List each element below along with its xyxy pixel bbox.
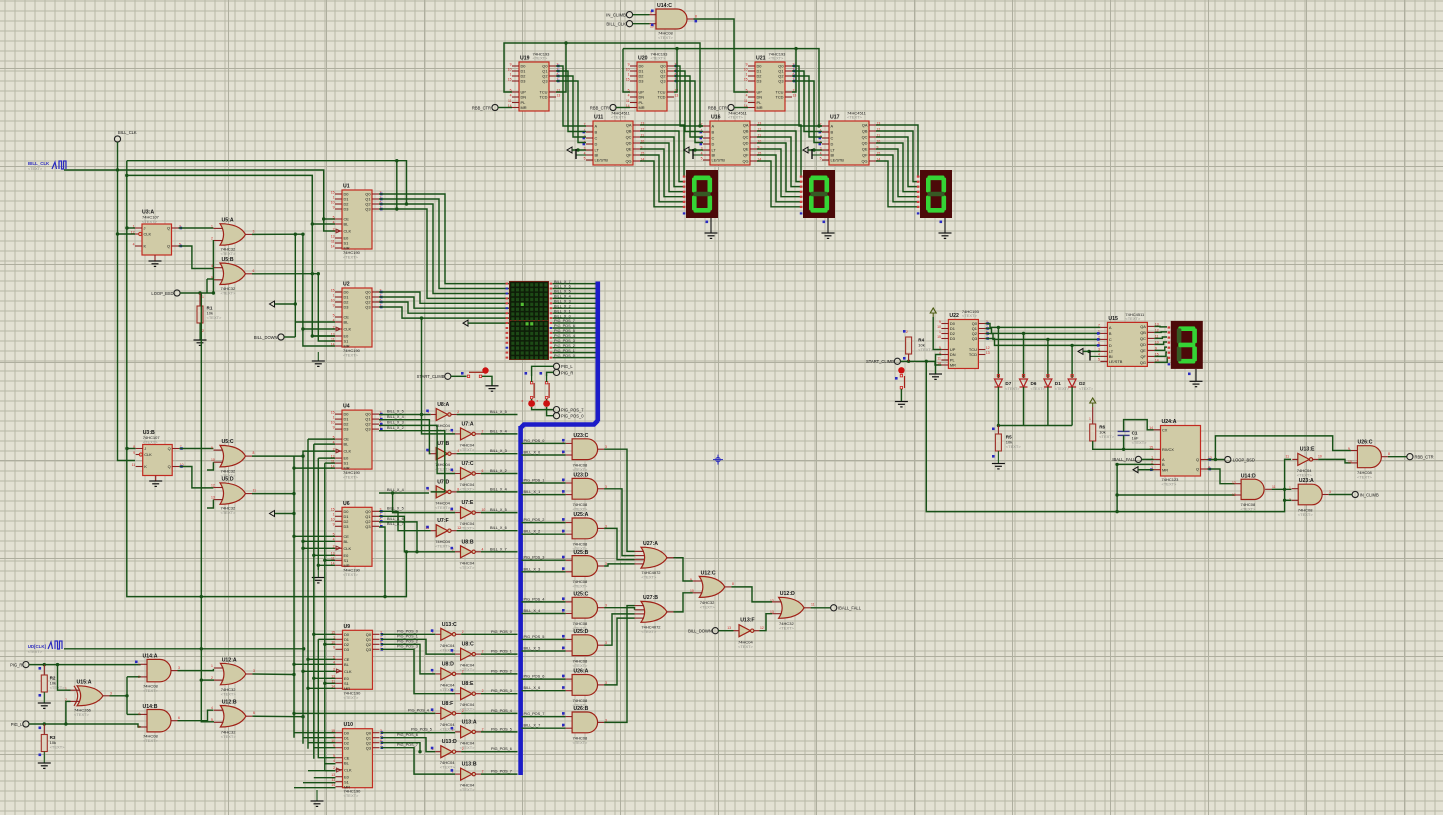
svg-text:U26:A: U26:A [573,669,588,675]
svg-text:BILL_X_6: BILL_X_6 [554,285,571,289]
U2 CLK arrow [336,327,341,331]
stubs into U6 [294,535,335,537]
wires U26:A inputs from bus [522,678,566,680]
svg-text:13: 13 [986,351,990,355]
svg-text:2: 2 [462,669,464,673]
wire loop H1 to U1 Q side [127,161,407,204]
svg-text:TCD: TCD [658,95,666,100]
svg-text:U8:A: U8:A [437,402,449,408]
counter U1 74HC190 [342,190,372,249]
svg-text:BILL_X_0: BILL_X_0 [524,451,541,455]
svg-text:<TEXT>: <TEXT> [50,745,66,750]
svg-text:QC: QC [626,135,632,140]
wire [633,14,650,16]
svg-text:C: C [595,136,598,141]
svg-text:D3: D3 [344,305,349,310]
svg-text:8: 8 [253,451,255,455]
svg-text:PIG_POS_4: PIG_POS_4 [554,334,575,338]
svg-text:CLK: CLK [344,327,352,332]
svg-text:RBB_CTR: RBB_CTR [1415,455,1434,460]
svg-text:U4: U4 [343,404,350,410]
wire U7:B output to bus [457,453,518,455]
svg-text:<TEXT>: <TEXT> [221,692,237,697]
svg-text:15: 15 [937,335,941,339]
wire PIG_R into U14:A in1 done above; wire U14:A out to U12:A [178,669,214,671]
counter U6 74HC190 [342,507,372,566]
svg-text:BILL_X_1: BILL_X_1 [554,309,571,313]
capacitor C1 [1118,431,1130,435]
svg-text:<TEXT>: <TEXT> [28,650,43,654]
wire U12:A in2 from long vertical [201,679,214,681]
wire diode common rail [998,425,1072,427]
wire U23:A out to IN_CLIMB terminal [1329,494,1352,496]
svg-text:U13:F: U13:F [740,618,754,624]
svg-text:U5:B: U5:B [222,257,234,263]
display ground [944,218,946,233]
wire top loop A (U19.TCU over to U16 column) [556,43,703,126]
svg-text:9: 9 [746,62,748,66]
diode D6 [1023,333,1025,378]
svg-text:IBALL_FALL: IBALL_FALL [838,606,862,611]
svg-text:BILL_X_7: BILL_X_7 [524,724,541,728]
svg-text:C: C [1109,337,1112,342]
svg-text:10: 10 [331,298,335,302]
svg-text:BILL_X_4: BILL_X_4 [524,609,541,613]
wire U5:A in2 from LOOP node [212,240,214,293]
svg-text:D3: D3 [344,647,349,652]
svg-text:MR: MR [521,105,527,110]
svg-text:7: 7 [1098,324,1100,328]
svg-text:B: B [595,130,598,135]
svg-text:<TEXT>: <TEXT> [700,604,716,609]
svg-text:D3: D3 [344,524,349,529]
svg-text:1: 1 [333,195,335,199]
svg-text:MR: MR [344,563,350,568]
ground (BI pin) [812,154,822,156]
resistor R5 [997,426,999,435]
svg-text:U5:C: U5:C [222,439,234,445]
wire loop H3 [127,175,335,336]
svg-text:K: K [144,244,147,249]
svg-text:PIG_POS_5: PIG_POS_5 [554,329,575,333]
svg-text:QC: QC [1140,336,1146,341]
wire U20.TCU riser [674,49,677,92]
svg-text:2: 2 [482,689,484,693]
svg-text:15: 15 [1149,446,1153,450]
svg-text:UD[CLK]: UD[CLK] [28,644,47,649]
svg-text:<TEXT>: <TEXT> [573,663,589,668]
terminal LOOP_BSD (right) [1225,456,1231,462]
svg-text:13: 13 [727,626,731,630]
wire U5:B in2 drop [207,278,213,280]
svg-text:BILL_CLK: BILL_CLK [118,130,137,135]
svg-text:12: 12 [1232,481,1236,485]
U15 LT arrow [1078,348,1083,354]
terminal IN_CLIMB [626,12,632,18]
wire U13:D output to bus [461,751,517,753]
svg-text:<TEXT>: <TEXT> [847,115,863,120]
svg-text:B: B [712,130,715,135]
svg-text:IN_CLIMB: IN_CLIMB [606,13,626,18]
svg-text:IBALL_FALL: IBALL_FALL [1112,457,1136,462]
svg-text:2: 2 [482,770,484,774]
svg-text:DN: DN [950,352,956,357]
svg-text:11: 11 [132,463,136,467]
ground under U10 [316,790,318,801]
svg-text:<TEXT>: <TEXT> [142,219,158,224]
svg-text:<TEXT>: <TEXT> [74,712,90,717]
svg-text:<TEXT>: <TEXT> [533,56,549,61]
svg-text:2: 2 [462,630,464,634]
counter U2 74HC190 [342,288,372,347]
svg-text:1: 1 [333,293,335,297]
svg-text:4: 4 [133,242,135,246]
svg-text:PIG_L: PIG_L [561,364,573,369]
svg-text:U13:D: U13:D [442,739,457,745]
svg-text:PIG_POS_5: PIG_POS_5 [491,727,512,731]
wire U7:C output to bus [481,473,518,475]
svg-text:BILL_X_6: BILL_X_6 [524,686,541,690]
svg-text:10: 10 [1318,455,1322,459]
svg-text:PIG_POS_5: PIG_POS_5 [411,727,432,731]
svg-text:PIG_POS_7: PIG_POS_7 [554,319,575,323]
svg-text:U7:B: U7:B [437,441,449,447]
wire U15:A in1 from PIG_R [58,665,71,691]
wire V295 (U5:A node down to U2/BILL_DOWN) [294,234,296,337]
ground (BI pin) [693,154,703,156]
wire U4.Q0 row to U8:A and U7:A [379,414,431,416]
svg-text:U13:A: U13:A [462,719,477,725]
U3:A clock bubble [139,232,142,235]
wire U5:D in2 [207,500,213,508]
svg-text:U23:A: U23:A [1299,478,1314,484]
svg-text:U8:E: U8:E [462,681,474,687]
svg-text:3: 3 [1329,490,1331,494]
wire [616,107,630,109]
svg-text:U14:D: U14:D [1241,473,1256,479]
svg-text:U24:A: U24:A [1162,419,1177,425]
wire V312.3 (to U1/U2) [311,175,313,336]
svg-text:A: A [831,124,834,129]
long vertical x=201 (LOOP_BSD node) [200,293,202,680]
wire BILL_DOWN to U13:F [718,630,733,632]
svg-text:<TEXT>: <TEXT> [143,688,159,693]
svg-text:<TEXT>: <TEXT> [221,510,237,515]
svg-text:9: 9 [628,62,630,66]
wire U22.DN to ground [936,355,942,375]
svg-text:14: 14 [1149,426,1153,430]
svg-text:Q: Q [167,226,170,231]
svg-text:<TEXT>: <TEXT> [573,740,589,745]
wire long vertical to bottom-right AND gates [926,361,1291,511]
diode D1 [1047,339,1049,378]
svg-text:9: 9 [1348,447,1350,451]
svg-text:BILL_X_2: BILL_X_2 [387,426,404,430]
svg-text:1: 1 [138,662,140,666]
svg-text:Q3: Q3 [778,79,783,84]
svg-text:B: B [831,130,834,135]
svg-text:B: B [1109,331,1112,336]
svg-text:Q3: Q3 [365,427,370,432]
svg-text:6: 6 [253,711,255,715]
svg-text:10: 10 [331,420,335,424]
svg-text:9: 9 [939,320,941,324]
svg-text:<TEXT>: <TEXT> [779,625,795,630]
svg-text:QA: QA [1140,324,1146,329]
svg-text:DN: DN [639,95,645,100]
wires counter to decoder staircases [556,66,586,126]
svg-text:3: 3 [110,692,112,696]
svg-text:5: 5 [584,156,586,160]
svg-text:<TEXT>: <TEXT> [1298,512,1314,517]
wire U3:A CLK input [118,233,136,235]
svg-text:12: 12 [211,484,215,488]
svg-text:BILL_X_5: BILL_X_5 [554,290,571,294]
svg-text:13: 13 [1232,493,1236,497]
svg-text:RBB_CTR: RBB_CTR [708,105,727,110]
svg-text:PIG_POS_6: PIG_POS_6 [554,324,575,328]
svg-text:BILL_X_3: BILL_X_3 [387,421,404,425]
svg-text:U1: U1 [343,184,350,190]
svg-text:U16: U16 [711,115,721,121]
svg-text:11: 11 [1285,455,1289,459]
svg-text:U12:D: U12:D [780,591,795,597]
wire START_CLIMB row [901,361,942,365]
decoder U15 74HC4511 [1107,322,1147,366]
svg-text:BILL_X_0: BILL_X_0 [554,314,571,318]
svg-text:QG: QG [1140,360,1146,365]
svg-text:MR: MR [344,344,350,349]
svg-text:2: 2 [211,237,213,241]
svg-text:RBB_CTR: RBB_CTR [590,105,609,110]
LT arrow terminal [684,147,689,153]
svg-text:U17: U17 [830,115,840,121]
svg-text:3: 3 [253,230,255,234]
svg-text:9: 9 [211,446,213,450]
U3:A reset pin to ground [154,255,156,261]
terminal RBB_CTR (U20 MR) [610,104,616,110]
svg-text:Q3: Q3 [365,305,370,310]
wire U13:F out to U12:D in2 [759,614,772,631]
svg-text:PIG_POS_2: PIG_POS_2 [524,518,545,522]
svg-text:<TEXT>: <TEXT> [1005,387,1020,391]
svg-text:12: 12 [986,346,990,350]
ground under R5 [997,451,999,464]
svg-text:<TEXT>: <TEXT> [728,115,744,120]
svg-text:U5:A: U5:A [222,218,234,224]
svg-text:<TEXT>: <TEXT> [435,505,451,510]
svg-text:QE: QE [626,147,632,152]
svg-text:MR: MR [344,686,350,691]
svg-text:<TEXT>: <TEXT> [641,629,657,634]
svg-text:<TEXT>: <TEXT> [221,291,237,296]
ground (BI pin) [576,154,586,156]
svg-text:U13:B: U13:B [462,762,477,768]
svg-text:10: 10 [482,508,486,512]
svg-text:QG: QG [861,159,867,164]
svg-text:13: 13 [211,496,215,500]
wire U7:F output to bus [457,530,518,532]
U1 CLK arrow [336,229,341,233]
wires U25:C inputs from bus [522,601,566,603]
svg-text:U12:B: U12:B [222,700,237,706]
arrow terminal to dot matrix row 8 [463,320,468,326]
svg-text:LOOP_BSD: LOOP_BSD [151,291,173,296]
svg-text:U25:A: U25:A [573,512,588,518]
svg-text:PIG_POS_0: PIG_POS_0 [554,354,575,358]
svg-text:10: 10 [508,67,512,71]
svg-text:MR: MR [344,466,350,471]
svg-text:BL: BL [344,320,350,325]
svg-text:BILL_X_5: BILL_X_5 [387,410,404,414]
counter U4 74HC190 [342,410,372,469]
svg-text:<TEXT>: <TEXT> [460,447,476,452]
svg-text:15: 15 [331,508,335,512]
wire U8:A output to bus [457,414,518,416]
wires U25:A inputs from bus [522,522,566,524]
U4 CLK arrow [336,449,341,453]
wire U27:B out to U12:C in2 [674,593,693,612]
wire U13:B output to bus [481,773,518,775]
svg-text:BILL_CLK: BILL_CLK [606,22,626,27]
svg-text:<TEXT>: <TEXT> [573,467,589,472]
svg-text:<TEXT>: <TEXT> [143,440,159,445]
svg-text:U10: U10 [344,722,354,728]
svg-text:6: 6 [482,469,484,473]
svg-text:MR: MR [950,363,956,368]
bus vertical lower [518,426,523,775]
svg-text:TCD: TCD [969,352,977,357]
wire V1 lower (to U3:B clock) [118,170,136,461]
wire V2 long left vertical [127,161,407,597]
svg-text:D2: D2 [1079,381,1085,386]
decoder U17 74HC4511 [829,121,869,165]
7-seg display 1 (digit 0) [686,170,718,218]
svg-text:4: 4 [510,93,512,97]
svg-text:Q3: Q3 [542,79,547,84]
svg-text:4: 4 [482,547,484,551]
counter U9 74HC190 [343,630,373,689]
svg-text:<TEXT>: <TEXT> [1132,440,1148,445]
svg-text:4: 4 [746,93,748,97]
svg-text:5: 5 [138,725,140,729]
svg-text:U14:C: U14:C [657,3,672,9]
wire vcc to U22.UP [933,317,941,350]
svg-text:BILL_X_6: BILL_X_6 [490,526,507,530]
svg-text:U13:E: U13:E [1300,447,1315,453]
svg-text:15: 15 [331,288,335,292]
wire U3:A J input [127,227,135,229]
wires AND outputs to U27:A [604,449,634,551]
svg-text:9: 9 [333,303,335,307]
wire [572,149,586,151]
wire U12:A out to counter columns [252,673,294,676]
svg-text:2: 2 [457,410,459,414]
svg-text:U5:D: U5:D [222,477,234,483]
svg-text:D3: D3 [757,79,762,84]
svg-text:PIG_POS_2: PIG_POS_2 [491,669,512,673]
svg-text:BILL_DOWN: BILL_DOWN [688,629,712,634]
svg-text:5: 5 [1098,358,1100,362]
svg-text:U23:D: U23:D [573,473,588,479]
svg-text:PIG_POS_1: PIG_POS_1 [491,650,512,654]
svg-text:D3: D3 [950,336,955,341]
svg-text:<TEXT>: <TEXT> [460,787,476,792]
svg-text:x: x [522,399,524,403]
svg-text:QE: QE [862,147,868,152]
svg-text:D: D [831,142,834,147]
wire top loop B (U20 over to U17 column) [623,49,822,126]
svg-text:x: x [537,399,539,403]
wire U5:A out to counter column [252,233,303,235]
svg-text:PIG_POS_3: PIG_POS_3 [554,339,575,343]
svg-text:U6: U6 [343,501,350,507]
terminal LOOP_BSD (left) [174,290,180,296]
wire LOOP_BSD [180,292,213,294]
svg-text:MR: MR [344,246,350,251]
svg-text:<TEXT>: <TEXT> [651,56,667,61]
svg-text:U21: U21 [756,56,766,62]
svg-text:CLK: CLK [344,546,352,551]
diode D7 [997,327,999,378]
svg-text:TCD: TCD [540,95,548,100]
svg-text:U14:A: U14:A [143,654,158,660]
svg-text:D3: D3 [521,79,526,84]
vertical feed columns for U4/U6/U9/U10 [293,456,295,738]
svg-text:2: 2 [333,227,335,231]
svg-text:<TEXT>: <TEXT> [343,572,359,577]
counter U10 74HC190 [343,729,373,788]
svg-text:Q: Q [168,446,171,451]
svg-text:BL: BL [344,222,350,227]
wires U10 Q to inverters [381,732,456,734]
wire U5:C output to column [252,451,335,456]
svg-text:U27:B: U27:B [643,595,658,601]
svg-text:1: 1 [202,295,204,299]
svg-text:9: 9 [510,62,512,66]
wire U12:B in2 from long vertical branch [201,680,214,722]
svg-text:U7:A: U7:A [462,421,474,427]
svg-text:U26:B: U26:B [573,706,588,712]
svg-text:PIG_R: PIG_R [10,662,22,667]
junction dots long-line joins [698,124,701,127]
svg-text:A: A [712,124,715,129]
svg-text:Q: Q [1196,457,1199,462]
svg-text:QD: QD [1140,342,1146,347]
push button 1 [530,382,532,384]
counter U20 74HC193 [637,62,667,111]
wire BILL_CLK horizontal to U1 col [64,170,335,231]
svg-text:2: 2 [462,747,464,751]
svg-text:4: 4 [211,706,213,710]
svg-text:U9: U9 [344,624,351,630]
wire PIG_L row [29,724,141,727]
svg-text:K: K [144,464,147,469]
wire U27:A out to U12:C in1 [674,558,693,581]
wire U4.Q1 row to U7:B [379,420,431,454]
svg-text:<TEXT>: <TEXT> [658,35,674,40]
wires U23:D inputs from bus [522,482,566,484]
svg-text:RBB_CTR: RBB_CTR [472,105,491,110]
wire stub U1 CE [324,218,335,220]
svg-text:BILL_X_5: BILL_X_5 [524,647,541,651]
bus vertical upper [595,282,600,422]
arrow wire into U2 column [270,301,275,307]
wire BILL_DOWN [284,336,295,338]
svg-text:15: 15 [508,77,512,81]
svg-text:13: 13 [793,93,797,97]
svg-text:4: 4 [333,759,335,763]
